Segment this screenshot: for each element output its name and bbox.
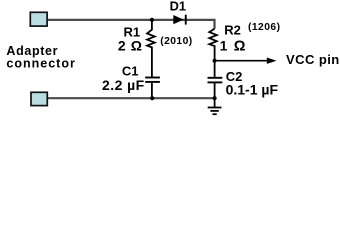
svg-text:2 Ω: 2 Ω <box>118 38 143 54</box>
svg-text:VCC pin: VCC pin <box>286 52 340 67</box>
svg-text:1: 1 <box>220 37 228 53</box>
connector pad bottom <box>31 92 47 105</box>
svg-text:Ω: Ω <box>234 38 246 54</box>
svg-text:connector: connector <box>6 57 75 71</box>
wire bottom rail <box>47 97 215 99</box>
resistor R1 <box>147 20 155 77</box>
svg-text:2.2 µF: 2.2 µF <box>102 77 145 93</box>
wire top rail <box>47 20 215 29</box>
node junction top (R1 tap) <box>150 18 154 22</box>
capacitor C2 <box>208 61 223 98</box>
ground <box>208 98 222 114</box>
capacitor C1 <box>145 78 160 99</box>
node junction bottom (ground) <box>213 96 217 100</box>
svg-text:(2010): (2010) <box>160 36 192 47</box>
connector pad top <box>30 12 47 26</box>
svg-text:R2: R2 <box>224 22 241 37</box>
node junction bottom (C1 to rail) <box>150 96 154 100</box>
svg-text:0.1-1 µF: 0.1-1 µF <box>226 82 279 98</box>
wire VCC arrow <box>215 58 277 64</box>
node junction mid (VCC tap) <box>213 59 217 63</box>
resistor R2 <box>209 29 217 61</box>
svg-text:D1: D1 <box>170 0 186 14</box>
diode D1 <box>173 15 186 25</box>
svg-text:(1206): (1206) <box>248 22 280 33</box>
